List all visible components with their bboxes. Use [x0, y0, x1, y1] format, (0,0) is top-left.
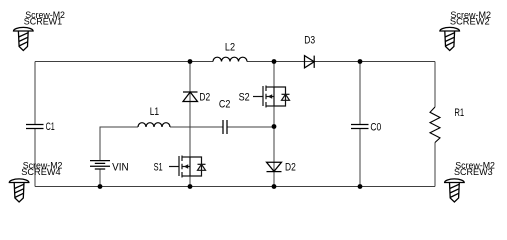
svg-text:VIN: VIN: [112, 162, 129, 174]
svg-text:C0: C0: [370, 122, 381, 134]
svg-text:C1: C1: [46, 121, 55, 133]
svg-text:L2: L2: [225, 42, 235, 54]
svg-text:R1: R1: [454, 107, 464, 119]
svg-text:SCREW2: SCREW2: [450, 16, 490, 26]
svg-text:S1: S1: [154, 162, 163, 174]
svg-text:S2: S2: [239, 92, 250, 104]
svg-text:D3: D3: [304, 35, 315, 47]
svg-text:SCREW4: SCREW4: [21, 167, 60, 177]
svg-text:D2: D2: [199, 92, 210, 104]
svg-text:SCREW1: SCREW1: [24, 16, 62, 26]
svg-text:SCREW3: SCREW3: [454, 167, 493, 177]
svg-text:C2: C2: [219, 98, 231, 110]
svg-text:L1: L1: [150, 106, 159, 118]
svg-text:D2: D2: [285, 162, 296, 174]
